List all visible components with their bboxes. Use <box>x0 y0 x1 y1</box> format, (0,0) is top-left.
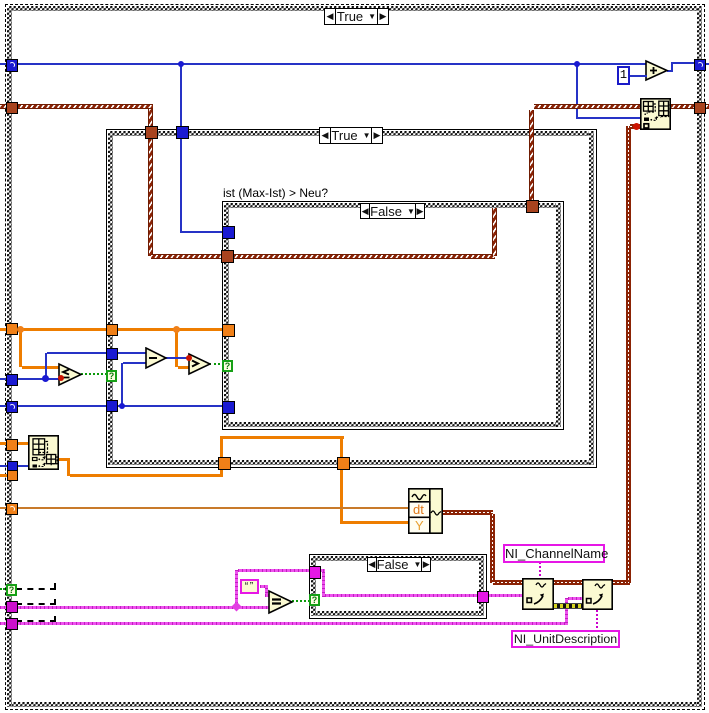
wire: pink riser x567 to property node 2 <box>565 598 568 623</box>
wire: yellow attribute wire between property nodes <box>554 603 583 609</box>
node: subtract <box>145 347 168 370</box>
node: equal comparison <box>268 589 294 615</box>
wire: broken dashed wire 2 <box>16 603 56 605</box>
wire: blue main horizontal top <box>0 63 646 65</box>
tunnel orange structure2 left y330 <box>106 324 118 336</box>
tunnel error cluster left y106 <box>6 102 18 114</box>
node: build waveform <box>408 488 443 534</box>
wire: error cluster horizontal to right border <box>534 104 696 109</box>
tunnel selector structure2 left y375 <box>106 370 117 382</box>
tunnel magenta left y624 <box>6 618 18 630</box>
constant: numeric 1 <box>617 66 630 85</box>
selector label structure3 False <box>360 203 425 219</box>
junction blue dot x46 y379 <box>42 375 49 382</box>
wire: broken dashed wire 3 <box>16 620 56 622</box>
wire: green boolean dotted into structure 2 selector <box>81 373 107 375</box>
wire: string constant output drop <box>265 588 268 597</box>
wire: blue subtract output to greater input <box>166 357 190 359</box>
wire: orange drop x68 <box>67 461 70 476</box>
case structure 2 bottom border hatch <box>108 460 594 465</box>
wire: blue y406 inside structure 2 to structure 3 <box>114 405 225 407</box>
wire: pink horizontal y596 inside structure 4 <box>325 594 479 597</box>
outer case structure bottom border <box>7 702 701 707</box>
junction pink diamond x237 y607 <box>232 602 242 612</box>
tunnel selector structure4 left y599 <box>309 594 320 606</box>
wire: orange drop below structure 2 x342 <box>340 467 343 524</box>
case structure 2 outline <box>106 129 597 468</box>
outer case structure left border <box>7 6 12 707</box>
tunnel case selector outer left y589 <box>6 584 17 596</box>
node: less-or-equal comparison <box>58 362 83 387</box>
wire: blue horizontal to junction x46 <box>16 378 61 380</box>
wire: orange into build-waveform Y input <box>343 521 408 524</box>
wire: blue right stub <box>702 63 709 65</box>
wire: blue horizontal to structure 3 tunnel <box>180 231 225 233</box>
constant: NI_UnitDescription string <box>511 630 620 648</box>
case structure 3 left border hatch <box>224 203 229 427</box>
constant: NI_ChannelName string <box>503 544 605 563</box>
wire: error cluster horizontal from left border <box>16 104 153 109</box>
tunnel error cluster structure3 left y256 <box>221 250 234 263</box>
tunnel error cluster right y106 <box>694 102 706 114</box>
wire: waveform drop x492 <box>490 514 495 583</box>
wire: blue horizontal y406 to structure 2 <box>16 405 111 407</box>
selector label structure2 True <box>319 127 383 144</box>
wire: error cluster riser inside structure 3 <box>492 208 497 256</box>
case structure 4 right border hatch <box>479 556 484 616</box>
junction blue dot x122 y406 <box>119 403 125 409</box>
wire: blue left stub y466 <box>0 465 16 467</box>
wire: thin orange left stub y508 <box>0 507 16 509</box>
wire: error cluster vertical inside structure 2 <box>148 136 153 256</box>
tunnel magenta structure4 left y572 <box>309 566 321 579</box>
junction blue dot x181 y64 <box>178 61 184 67</box>
case structure 3 top border hatch <box>224 203 561 208</box>
case structure 3 bottom border hatch <box>224 422 561 427</box>
tunnel blue linked left y406 <box>6 401 18 413</box>
junction orange dot x177 y330 <box>173 326 180 333</box>
case structure 2 right border hatch <box>589 131 594 465</box>
wire: error cluster left stub <box>0 104 16 109</box>
node: set waveform attribute 2 <box>582 579 613 610</box>
case structure 4 left border hatch <box>311 556 316 616</box>
wire: pink horizontal y571 to structure 4 tunnel <box>238 569 312 572</box>
tunnel error cluster structure2 top x151 <box>145 126 158 139</box>
svg-text:dt: dt <box>413 502 424 517</box>
wire: blue increment output segment <box>667 70 673 72</box>
wire: blue horizontal y364 into subtract <box>123 362 146 364</box>
wire: orange horizontal to structure 2 <box>16 328 111 331</box>
wire: orange horizontal inside structure 2 <box>115 328 227 331</box>
tunnel blue linked left y63 <box>6 59 18 72</box>
case structure 4 outline <box>309 554 487 619</box>
outer case structure right border <box>697 6 702 707</box>
wire: blue vertical branch x577 <box>576 65 578 119</box>
wire: dotted magenta from NI_UnitDescription label up <box>596 610 598 631</box>
constant: empty string <box>240 579 259 594</box>
wire: broken dashed wire 3 hook <box>54 616 56 621</box>
tunnel blue structure3 left y407 <box>222 401 235 414</box>
coercion red dot greater input <box>186 355 192 361</box>
wire: waveform elbow into replace-array node <box>630 124 640 129</box>
case structure 2 left border hatch <box>108 131 113 465</box>
tunnel blue left y466 <box>7 461 18 471</box>
node: add function (increment) <box>645 59 669 83</box>
wire: thin orange dt wire <box>16 507 408 509</box>
tunnel orange linked left y508 <box>6 503 18 515</box>
node: replace array subset <box>640 98 671 130</box>
wire: orange into greater top input <box>178 366 190 369</box>
wire: green boolean dotted into structure 3 selector <box>209 363 224 365</box>
tunnel error cluster structure3 top x532 <box>526 200 539 213</box>
tunnel blue structure3 left y232 <box>222 226 235 239</box>
case structure 2 top border hatch <box>108 131 594 136</box>
wire: blue y353 inside structure 2 to subtract <box>114 352 146 354</box>
case structure 4 top border hatch <box>311 556 484 561</box>
wire: orange drop from junction x177 <box>175 331 178 367</box>
wire: orange riser inside structure 2 x222 <box>220 437 223 459</box>
tunnel blue linked right y63 <box>694 59 706 71</box>
wire: blue into index-array <box>16 465 28 467</box>
wire: pink horizontal y599 into property node 2 <box>568 597 583 600</box>
wire: orange left stub y444 <box>0 442 16 445</box>
wire: error cluster horizontal to structure 3 <box>151 254 227 259</box>
tunnel blue structure2 left y353 <box>106 348 118 360</box>
tunnel orange left y329 <box>6 323 18 335</box>
case structure 4 bottom border hatch <box>311 611 484 616</box>
wire: pink string left stub y624 <box>0 622 16 625</box>
wire: pink from diamond to equals node <box>238 606 270 609</box>
tunnel orange structure2 bottom x342 <box>337 457 350 470</box>
wire: orange left stub y476 <box>0 474 16 477</box>
wire: blue from constant 1 to add node <box>630 75 647 77</box>
wire: blue increment output riser <box>671 62 673 72</box>
svg-text:Y: Y <box>415 518 424 533</box>
wire: pink from structure 4 right tunnel to property node 1 <box>487 594 523 597</box>
node: set waveform attribute 1 <box>522 578 554 610</box>
wire: orange into index-array <box>16 442 28 445</box>
wire: pink string horizontal y607 <box>16 606 238 609</box>
wire: blue riser x46 <box>45 353 47 379</box>
tunnel blue left y379 <box>6 374 18 386</box>
tunnel selector structure3 left y365 <box>222 360 233 372</box>
wire: blue riser x122 to subtract lower input <box>121 363 123 406</box>
wire: blue left stub y406 <box>0 405 16 407</box>
wire: pink string horizontal y624 <box>16 622 568 625</box>
wire: broken dashed wire 1 hook <box>54 583 56 589</box>
wire: string constant output elbow <box>260 585 268 588</box>
selector label outer True <box>324 8 389 25</box>
outer case structure top border <box>7 6 701 11</box>
wire: orange into less-equal top input <box>22 366 60 369</box>
tunnel magenta left y607 <box>6 601 18 613</box>
case structure 3 outline <box>222 201 564 430</box>
wire: orange bridge horizontal y438 <box>220 436 344 439</box>
wire: error cluster right stub <box>701 104 709 109</box>
junction orange dot x21 y330 <box>17 326 24 333</box>
wire: blue vertical branch x181 <box>180 65 182 129</box>
wire: orange horizontal y476 <box>70 474 223 477</box>
free label: ist (Max-Ist) > Neu? <box>223 186 328 200</box>
wire: error cluster drop to structure 2 <box>148 109 153 128</box>
wire: dotted magenta from NI_ChannelName label down <box>539 562 541 578</box>
wire: orange index-array output <box>59 458 70 461</box>
tunnel orange structure3 left y330 <box>222 324 235 337</box>
coercion red dot replace-array waveform input <box>633 123 640 130</box>
wire: waveform from build-waveform output <box>443 510 493 515</box>
selector label structure4 False <box>367 557 431 572</box>
wire: waveform horizontal through property nodes <box>493 580 630 585</box>
wire: pink drop inside structure 4 <box>322 572 325 597</box>
tunnel magenta structure4 right y597 <box>477 591 489 603</box>
wire: pink riser x237 <box>235 570 238 607</box>
wire: error cluster riser above structure 3 tunnel <box>529 110 534 202</box>
wire: green boolean dotted into structure 4 selector <box>292 600 310 602</box>
wire: error cluster horizontal inside structure 3 <box>231 254 495 259</box>
wire: broken dashed wire 2 hook <box>54 599 56 604</box>
wire: blue left stub y379 <box>0 378 16 380</box>
wire: waveform long riser x628 <box>626 126 631 583</box>
node: greater-than comparison <box>188 352 211 376</box>
wire: orange left stub y329 <box>0 328 16 331</box>
wire: broken dashed wire 1 <box>16 588 56 590</box>
coercion red dot less-equal input <box>58 375 64 381</box>
wire: orange drop inside structure 2 x342 <box>340 439 343 459</box>
wire: pink string left stub y607 <box>0 606 16 609</box>
wire: pink inside structure 4 from tunnel <box>319 569 325 572</box>
case structure 3 right border hatch <box>556 203 561 427</box>
junction blue dot x577 y64 <box>574 61 580 67</box>
wire: blue horizontal into replace-array node <box>576 117 642 119</box>
tunnel orange left y444 <box>6 439 18 451</box>
wire: blue horizontal y353 to structure 2 <box>47 352 111 354</box>
wire: orange riser x222 to bottom tunnel <box>220 467 223 477</box>
wire: green boolean dotted left stub y589 <box>0 588 8 590</box>
wire: blue vertical x181 inside structure 2 <box>180 136 182 232</box>
wire: string constant output into equals <box>265 594 271 597</box>
tunnel orange structure2 bottom x224 <box>218 457 231 470</box>
tunnel orange left y476 <box>7 470 18 481</box>
tunnel blue structure2 left y406 <box>106 400 118 412</box>
node: index array <box>28 435 59 470</box>
tunnel blue structure2 top x181 <box>176 126 189 139</box>
wire: orange drop from junction x21 <box>19 331 22 367</box>
wire: blue to right tunnel <box>673 62 696 64</box>
